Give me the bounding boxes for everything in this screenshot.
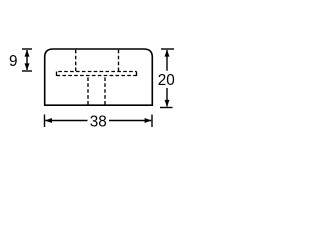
- svg-text:20: 20: [158, 72, 175, 89]
- svg-text:9: 9: [9, 53, 18, 70]
- svg-text:38: 38: [90, 114, 107, 131]
